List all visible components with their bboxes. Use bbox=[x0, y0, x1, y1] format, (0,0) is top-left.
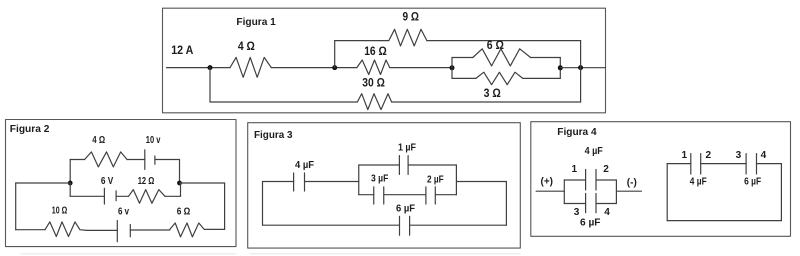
svg-text:9 Ω: 9 Ω bbox=[403, 12, 420, 24]
svg-text:Figura 4: Figura 4 bbox=[557, 126, 596, 138]
wire main fig3 mid bbox=[305, 181, 359, 183]
battery 6v bbox=[117, 221, 130, 242]
svg-text:1: 1 bbox=[682, 150, 688, 161]
wire block right bar bbox=[559, 58, 561, 79]
wire fig4 right lead bbox=[616, 190, 641, 192]
svg-text:(-): (-) bbox=[627, 177, 637, 188]
capacitor 2µF bbox=[426, 187, 435, 204]
wire fig4 loop right bar bbox=[615, 180, 617, 204]
wire mid branch left bbox=[70, 195, 104, 197]
svg-text:4: 4 bbox=[604, 207, 610, 218]
resistor R 10Ω bbox=[45, 222, 86, 237]
shadow line under Figura 3 bbox=[250, 253, 520, 255]
svg-text:4 µF: 4 µF bbox=[295, 160, 314, 171]
wire fig4 rect left bar bbox=[666, 164, 668, 221]
svg-text:6 v: 6 v bbox=[118, 206, 129, 217]
label 2 µF bbox=[427, 175, 444, 186]
label 6 µF fig4 right bbox=[744, 176, 761, 187]
wire block bottom branch mid bbox=[384, 194, 426, 196]
frame Figura 4 bbox=[531, 122, 791, 237]
wire main left bbox=[167, 67, 230, 69]
wire 16Ω to block bbox=[390, 67, 452, 69]
wire top branch mid bbox=[127, 159, 145, 161]
wire top branch left vertical bbox=[69, 160, 71, 184]
wire block top branch right bbox=[408, 164, 456, 166]
label 4 µF fig4 right bbox=[690, 176, 707, 187]
wire main fig3 left bbox=[263, 181, 294, 183]
label pin 3 right bbox=[736, 150, 742, 161]
wire block left bar bbox=[451, 58, 453, 79]
label 1 µF bbox=[398, 143, 416, 154]
label 4 Ω fig2 bbox=[92, 135, 105, 146]
label 12 A bbox=[171, 45, 193, 57]
svg-text:Figura 1: Figura 1 bbox=[236, 16, 276, 28]
wire top rail right bbox=[427, 40, 581, 42]
label (-) bbox=[627, 177, 637, 188]
label 12 Ω bbox=[138, 176, 155, 187]
label 9 Ω bbox=[403, 12, 420, 24]
resistor R 12Ω bbox=[129, 190, 166, 204]
label pin 3 left bbox=[574, 207, 580, 218]
svg-text:4 µF: 4 µF bbox=[690, 176, 707, 187]
label 3 Ω bbox=[484, 88, 501, 100]
wire mid branch right vertical bbox=[180, 183, 182, 196]
svg-text:4: 4 bbox=[761, 150, 767, 161]
svg-text:6 µF: 6 µF bbox=[396, 204, 415, 215]
wire node A down bbox=[209, 68, 211, 102]
node right fig2 bbox=[177, 181, 182, 186]
node D bbox=[578, 65, 583, 70]
wire bottom rail a bbox=[16, 229, 45, 231]
svg-text:3: 3 bbox=[736, 150, 742, 161]
label 3 µF bbox=[371, 174, 388, 185]
label 4 Ω bbox=[238, 41, 255, 53]
wire fig4 loop top left bbox=[564, 179, 585, 181]
wire fig4 rect top b bbox=[701, 163, 746, 165]
label 16 Ω bbox=[364, 46, 387, 58]
svg-text:6 Ω: 6 Ω bbox=[177, 206, 191, 217]
label 10 v bbox=[146, 135, 161, 146]
wire node right stub bbox=[180, 182, 225, 184]
wire top branch right vertical bbox=[179, 160, 181, 184]
wire top rail left bbox=[335, 40, 389, 42]
wire node left stub bbox=[16, 182, 70, 184]
svg-text:2: 2 bbox=[603, 164, 609, 175]
svg-text:10 v: 10 v bbox=[146, 135, 161, 146]
node block right bbox=[558, 65, 563, 70]
wire bottom rail left bbox=[210, 101, 357, 103]
svg-text:Figura 2: Figura 2 bbox=[10, 123, 50, 135]
resistor R 4Ω fig2 bbox=[85, 152, 127, 167]
label pin 4 right bbox=[761, 150, 767, 161]
wire fig4 rect right bar bbox=[780, 164, 782, 221]
wire bottom rail b bbox=[86, 229, 117, 231]
wire outer left vertical bbox=[15, 183, 17, 230]
wire block top branch left bbox=[359, 164, 400, 166]
label pin 4 left bbox=[604, 207, 610, 218]
label pin 1 right bbox=[682, 150, 688, 161]
frame Figura 2 bbox=[6, 120, 237, 247]
resistor R 3Ω bbox=[476, 72, 523, 85]
frame Figura 1 bbox=[163, 8, 606, 113]
wire mid branch right bbox=[165, 195, 181, 197]
svg-text:1 µF: 1 µF bbox=[398, 143, 416, 154]
wire block bottom branch right bbox=[435, 194, 456, 196]
wire fig4 loop left bar bbox=[563, 180, 565, 204]
svg-text:2 µF: 2 µF bbox=[427, 175, 444, 186]
svg-text:6 V: 6 V bbox=[101, 176, 114, 187]
label 4 µF bbox=[295, 160, 314, 171]
wire fig3 right vertical bbox=[505, 182, 507, 226]
svg-text:30 Ω: 30 Ω bbox=[362, 78, 385, 90]
wire block bottom edge bbox=[452, 77, 560, 79]
svg-text:3 Ω: 3 Ω bbox=[484, 88, 501, 100]
label 30 Ω bbox=[362, 78, 385, 90]
wire fig3 left vertical bbox=[262, 182, 264, 226]
resistor R 4Ω bbox=[230, 57, 271, 77]
wire top branch left bbox=[70, 159, 84, 161]
capacitor 1µF bbox=[399, 156, 408, 175]
svg-text:4 Ω: 4 Ω bbox=[238, 41, 255, 53]
label Figura 2 bbox=[10, 123, 50, 135]
resistor R 30Ω bbox=[357, 94, 391, 110]
wire fig4 rect top a bbox=[667, 163, 691, 165]
label pin 2 right bbox=[706, 150, 712, 161]
svg-text:12 A: 12 A bbox=[171, 45, 193, 57]
svg-text:10 Ω: 10 Ω bbox=[52, 205, 67, 216]
node A bbox=[208, 65, 213, 70]
wire block right bar fig3 bbox=[455, 165, 457, 195]
svg-text:1: 1 bbox=[572, 164, 578, 175]
wire fig3 bottom right bbox=[410, 224, 507, 226]
label 10 Ω bbox=[52, 205, 67, 216]
wire bottom rail d bbox=[211, 228, 225, 230]
wire bottom rail c bbox=[130, 229, 170, 231]
svg-text:6 µF: 6 µF bbox=[580, 217, 601, 228]
svg-text:3: 3 bbox=[574, 207, 580, 218]
label 6 Ω fig2 bbox=[177, 206, 191, 217]
resistor R 6Ω fig2 bbox=[170, 223, 211, 237]
wire outer right vertical bbox=[224, 183, 226, 229]
wire bottom rail right bbox=[392, 101, 581, 103]
wire right vertical bbox=[580, 41, 582, 102]
svg-text:4 µF: 4 µF bbox=[585, 146, 603, 157]
label 6 v bbox=[118, 206, 129, 217]
wire fig4 loop bottom right bbox=[596, 203, 616, 205]
wire main right bbox=[560, 67, 605, 69]
svg-text:(+): (+) bbox=[541, 176, 554, 187]
svg-text:4 Ω: 4 Ω bbox=[92, 135, 105, 146]
label 6 Ω bbox=[487, 40, 504, 52]
capacitor 4µF fig4 right bbox=[691, 154, 701, 174]
resistor R 9Ω bbox=[389, 29, 427, 46]
wire fig4 rect bottom bbox=[667, 220, 781, 222]
wire fig4 left lead bbox=[536, 190, 564, 192]
capacitor 6µF fig4 left bbox=[586, 194, 596, 213]
battery 6V bbox=[104, 188, 116, 204]
wire block bottom branch left bbox=[359, 194, 374, 196]
resistor R 16Ω bbox=[357, 60, 390, 75]
label 6 µF bbox=[396, 204, 415, 215]
capacitor 6µF fig4 right bbox=[746, 154, 756, 174]
shadow line under Figura 2 bbox=[21, 253, 236, 255]
svg-text:16 Ω: 16 Ω bbox=[364, 46, 387, 58]
wire fig4 loop top right bbox=[596, 179, 616, 181]
wire fig4 loop bottom left bbox=[564, 203, 585, 205]
label pin 2 left bbox=[603, 164, 609, 175]
wire node B to top rail bbox=[334, 41, 336, 68]
wire mid branch mid bbox=[116, 195, 128, 197]
label 6 V bbox=[101, 176, 114, 187]
svg-text:12 Ω: 12 Ω bbox=[138, 176, 155, 187]
label pin 1 left bbox=[572, 164, 578, 175]
capacitor 3µF bbox=[374, 187, 384, 204]
wire fig4 rect top c bbox=[757, 163, 782, 165]
battery 10v bbox=[145, 150, 155, 170]
svg-text:2: 2 bbox=[706, 150, 712, 161]
node B bbox=[332, 65, 337, 70]
capacitor 4µF bbox=[294, 173, 305, 191]
node left fig2 bbox=[68, 181, 73, 186]
label Figura 1 bbox=[236, 16, 276, 28]
wire fig3 bottom left bbox=[263, 224, 400, 226]
wire block top edge bbox=[452, 57, 560, 59]
wire block left bar fig3 bbox=[358, 165, 360, 195]
wire main mid bbox=[271, 67, 357, 69]
svg-text:Figura 3: Figura 3 bbox=[254, 129, 293, 141]
svg-text:3 µF: 3 µF bbox=[371, 174, 388, 185]
wire main fig3 right bbox=[456, 181, 506, 183]
wire mid branch left vertical bbox=[69, 183, 71, 196]
label 4 µF fig4 left bbox=[585, 146, 603, 157]
frame Figura 3 bbox=[248, 123, 521, 248]
capacitor 6µF bbox=[400, 216, 410, 235]
resistor R 6Ω bbox=[473, 49, 531, 66]
capacitor 4µF fig4 left bbox=[586, 170, 596, 191]
wire top branch right bbox=[155, 159, 180, 161]
label (+) bbox=[541, 176, 554, 187]
label Figura 3 bbox=[254, 129, 293, 141]
label 6 µF fig4 left bbox=[580, 217, 601, 228]
node C bbox=[450, 65, 455, 70]
svg-text:6 µF: 6 µF bbox=[744, 176, 761, 187]
label Figura 4 bbox=[557, 126, 596, 138]
